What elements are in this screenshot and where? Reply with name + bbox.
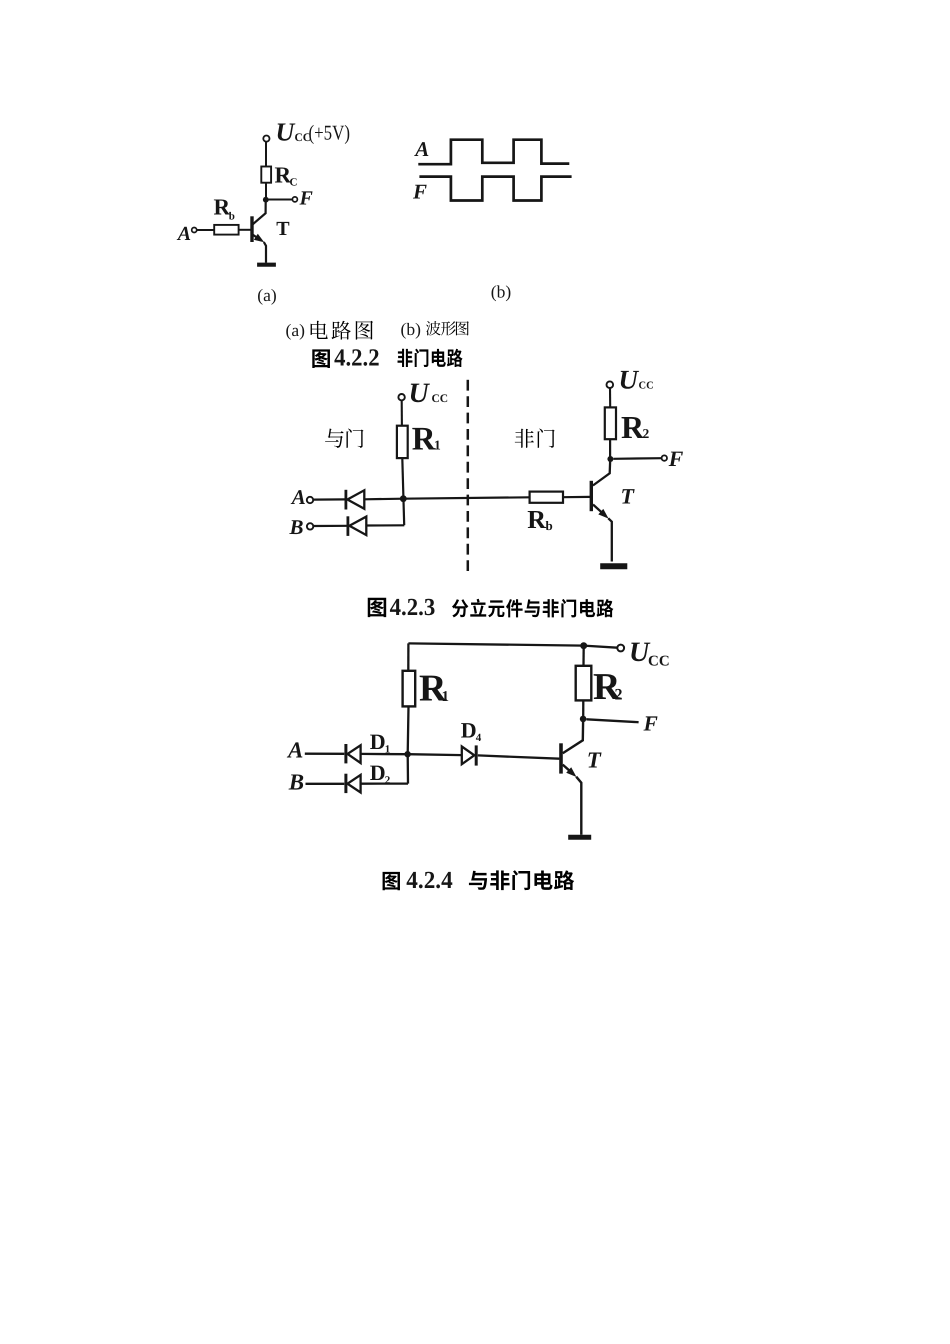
node collector junction [580, 716, 587, 723]
resistor Rc [261, 167, 271, 183]
svg-text:A: A [286, 738, 303, 763]
svg-text:2: 2 [615, 687, 623, 704]
resistor Rb [530, 492, 563, 503]
diode DA triangle [347, 490, 364, 509]
svg-text:C: C [290, 177, 298, 189]
caption fig 4.2.3 [368, 598, 386, 617]
resistor R1 [403, 671, 416, 707]
svg-text:1: 1 [442, 689, 450, 705]
waveform F [419, 177, 571, 201]
diode D4 triangle [462, 747, 475, 765]
svg-text:(+5V): (+5V) [309, 121, 351, 145]
wire D1 to junction [361, 753, 405, 756]
wire R2 top to rail [582, 646, 585, 666]
label AND-gate (yumen) [325, 429, 344, 448]
wire rail to R1 [407, 643, 409, 670]
label NOT-gate (feimen) [515, 429, 534, 448]
svg-text:F: F [412, 179, 427, 203]
wire emitter [563, 765, 570, 771]
svg-text:R: R [527, 505, 546, 534]
wire F line [613, 457, 661, 460]
diode DA cathode bar [344, 490, 347, 510]
svg-text:B: B [288, 769, 304, 794]
wire emitter [593, 505, 602, 513]
wire A to diode [313, 498, 346, 500]
node Ucc terminal right [607, 381, 614, 388]
svg-text:U: U [619, 364, 640, 394]
svg-text:CC: CC [648, 653, 670, 669]
diode D1 triangle [348, 745, 361, 763]
node A terminal [192, 228, 197, 233]
node F terminal [662, 455, 667, 460]
wire R2 to Ucc [609, 388, 611, 407]
diode D2 triangle [348, 775, 361, 793]
emitter arrowhead [566, 767, 576, 777]
svg-text:D: D [370, 760, 386, 785]
svg-text:U: U [276, 117, 296, 146]
wire Ucc to R1 [401, 400, 403, 425]
wire A to D1 [305, 753, 345, 755]
resistor R1 [397, 426, 408, 458]
svg-text:2: 2 [643, 426, 650, 441]
wire B to diode [313, 525, 348, 527]
svg-text:(a): (a) [286, 320, 306, 340]
svg-text:(b): (b) [491, 282, 512, 302]
diode D1 cathode bar [344, 744, 347, 763]
svg-text:R: R [621, 409, 645, 445]
wire junction to D4 [408, 753, 462, 756]
resistor R2 [605, 407, 616, 439]
diode D2 cathode bar [344, 774, 347, 793]
svg-text:F: F [668, 446, 684, 471]
node Ucc terminal [617, 645, 624, 652]
svg-text:4.2.4: 4.2.4 [406, 867, 452, 894]
wire collector [593, 460, 610, 486]
svg-text:4.2.2: 4.2.2 [334, 345, 380, 372]
node Ucc terminal (fig a) [263, 136, 269, 142]
wire diode to junction to Rb [364, 497, 529, 499]
waveform A [418, 140, 569, 165]
caption fig 4.2.4 NAND-gate circuit [383, 872, 400, 890]
svg-text:4.2.3: 4.2.3 [390, 594, 436, 621]
transistor T base bar [250, 216, 253, 242]
node B terminal [307, 523, 313, 529]
svg-text:D: D [461, 718, 477, 743]
wire Ucc to Rc [265, 142, 267, 167]
node F terminal [292, 197, 297, 202]
svg-text:4: 4 [476, 732, 482, 744]
wire F line [586, 719, 638, 722]
diode DB triangle [349, 517, 366, 536]
wire base [239, 229, 251, 231]
wire B diode to corner [366, 524, 404, 526]
wire emitter [253, 235, 259, 239]
svg-text:CC: CC [432, 393, 449, 405]
ground (fig 4.2.4) [568, 835, 591, 840]
wire to F [266, 199, 293, 201]
svg-text:A: A [176, 223, 191, 245]
svg-text:F: F [299, 188, 314, 210]
svg-text:T: T [276, 218, 290, 240]
svg-text:T: T [587, 748, 602, 773]
wire A to Rb [197, 229, 214, 231]
svg-text:A: A [413, 137, 429, 161]
transistor T base bar [590, 481, 593, 511]
ground (fig 4.2.3) [600, 563, 627, 569]
transistor T base bar [559, 743, 563, 773]
emitter arrowhead [254, 234, 264, 243]
svg-text:T: T [621, 484, 636, 509]
node Ucc terminal left [398, 394, 404, 400]
svg-text:D: D [370, 729, 386, 754]
dashed divider [467, 380, 470, 576]
diode D4 cathode bar [475, 745, 478, 765]
node junction A line [400, 495, 407, 502]
wire emitter to ground [576, 777, 581, 835]
svg-text:(a): (a) [257, 285, 277, 305]
node rail junction [580, 642, 587, 649]
wire R1 to junction to B corner [407, 706, 410, 783]
svg-text:b: b [546, 518, 553, 533]
resistor Rb [214, 225, 238, 235]
node junction A line [404, 751, 410, 757]
diode DB cathode bar [346, 516, 349, 536]
wire B to D2 [306, 783, 345, 785]
resistor R2 [576, 666, 592, 701]
wire Rb to base [563, 496, 590, 499]
svg-text:A: A [290, 485, 306, 509]
wire collector [563, 722, 583, 754]
emitter arrowhead [598, 509, 608, 519]
svg-text:U: U [409, 378, 431, 409]
svg-text:b: b [229, 211, 235, 223]
node collector junction [263, 197, 269, 203]
svg-text:(b): (b) [401, 319, 422, 339]
caption fig 4.2.2 NOT-gate circuit [312, 349, 330, 368]
svg-text:F: F [643, 712, 658, 736]
svg-text:1: 1 [434, 438, 441, 453]
node collector junction [607, 456, 613, 462]
wire R1 down to B corner [402, 458, 404, 525]
ground (fig a) [257, 263, 276, 267]
wire junction to R2 [609, 439, 611, 456]
wire emitter to ground [264, 242, 266, 263]
svg-text:CC: CC [639, 380, 654, 391]
node A terminal [307, 497, 313, 503]
wire D2 to corner [361, 782, 408, 784]
wire emitter to ground [608, 518, 612, 561]
wire junction up to R2 [582, 700, 584, 719]
wire top rail [408, 643, 617, 647]
wire D4 to base [478, 755, 560, 758]
svg-text:B: B [289, 515, 304, 539]
wire collector [253, 200, 266, 225]
wire Rc to collector node [265, 183, 267, 200]
